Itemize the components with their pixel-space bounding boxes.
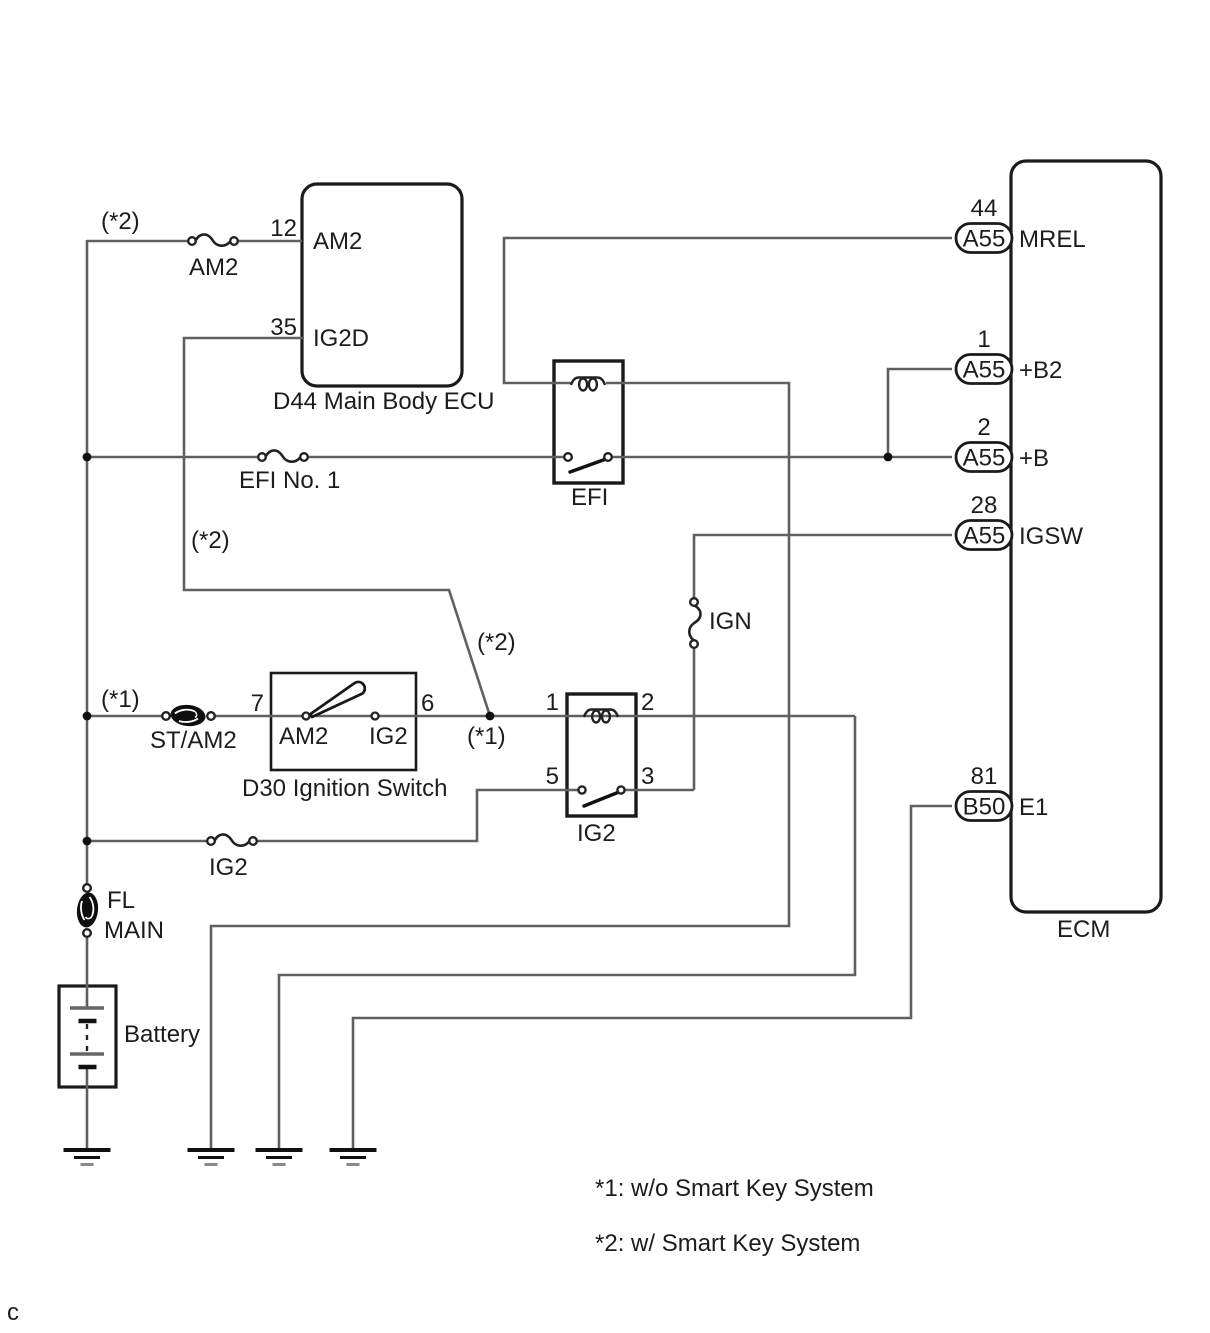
pin name IG2D in D44 <box>313 325 369 352</box>
EFI relay coil <box>571 378 605 391</box>
label +B2 <box>1019 357 1062 384</box>
svg-text:(*1): (*1) <box>467 723 506 750</box>
label IGN <box>709 608 752 635</box>
svg-text:A55: A55 <box>963 445 1006 472</box>
svg-text:FL: FL <box>107 887 135 914</box>
connector A55 pin2 +B <box>956 443 1012 472</box>
pin 81 <box>971 763 998 790</box>
svg-text:IGN: IGN <box>709 608 752 635</box>
svg-text:*2: w/ Smart Key System: *2: w/ Smart Key System <box>595 1230 860 1257</box>
D44 Main Body ECU box <box>302 184 462 386</box>
pin name AM2 in D44 <box>313 228 362 255</box>
pin 44 <box>971 195 998 222</box>
wire +B2 branch <box>888 369 952 457</box>
pin 2 IG2 relay <box>641 689 654 716</box>
svg-text:AM2: AM2 <box>279 723 328 750</box>
fuse IGN vertical <box>689 598 700 648</box>
junction node +B/+B2 <box>884 453 893 462</box>
svg-text:IGSW: IGSW <box>1019 523 1083 550</box>
svg-text:A55: A55 <box>963 523 1006 550</box>
svg-text:IG2D: IG2D <box>313 325 369 352</box>
svg-text:28: 28 <box>971 492 998 519</box>
fuse EFI No.1 <box>258 450 308 461</box>
fusible link ST/AM2 <box>162 703 215 728</box>
wire IG2D branch <box>184 338 490 716</box>
pin 7 <box>251 690 264 717</box>
svg-text:2: 2 <box>641 689 654 716</box>
svg-text:*1: w/o Smart Key System: *1: w/o Smart Key System <box>595 1175 874 1202</box>
IG2 relay coil <box>584 710 618 723</box>
label MAIN <box>104 917 164 944</box>
label (*1) left <box>101 686 140 713</box>
note 1 <box>595 1175 874 1202</box>
wire MREL to EFI coil <box>504 238 952 383</box>
pin 3 IG2 relay <box>641 763 654 790</box>
label FL <box>107 887 135 914</box>
pin 1 IG2 relay <box>546 689 559 716</box>
ground battery <box>64 1150 111 1165</box>
wire AM2 row top <box>87 240 302 243</box>
wire IG2 fuse row to relay pin5 <box>87 790 694 841</box>
pin 2 ECM <box>977 414 990 441</box>
svg-text:EFI: EFI <box>571 484 608 511</box>
connector A55 pin1 +B2 <box>956 355 1012 384</box>
label D44 Main Body ECU <box>273 388 494 415</box>
svg-text:D44 Main Body ECU: D44 Main Body ECU <box>273 388 494 415</box>
label fuse IG2 <box>209 854 248 881</box>
wire left vertical <box>86 240 89 884</box>
ECM box <box>1011 161 1161 912</box>
wire E1 to ground <box>353 806 952 1150</box>
label (*2) mid left <box>191 527 230 554</box>
IG2 relay contact <box>578 786 624 806</box>
fuse IG2 <box>207 834 257 845</box>
junction node main row left <box>83 712 92 721</box>
svg-text:B50: B50 <box>963 794 1006 821</box>
junction node IG2 row left <box>83 837 92 846</box>
battery plates <box>70 1008 104 1067</box>
svg-text:35: 35 <box>270 314 297 341</box>
svg-text:ECM: ECM <box>1057 916 1110 943</box>
svg-text:MREL: MREL <box>1019 226 1086 253</box>
svg-text:44: 44 <box>971 195 998 222</box>
label fuse AM2 <box>189 254 238 281</box>
svg-text:E1: E1 <box>1019 794 1048 821</box>
label Battery <box>124 1021 200 1048</box>
svg-text:3: 3 <box>641 763 654 790</box>
label E1 <box>1019 794 1048 821</box>
svg-text:EFI No. 1: EFI No. 1 <box>239 467 340 494</box>
svg-text:81: 81 <box>971 763 998 790</box>
contact name AM2 in D30 <box>279 723 328 750</box>
connector A55 pin28 IGSW <box>956 521 1012 550</box>
contact name IG2 in D30 <box>369 723 408 750</box>
svg-text:1: 1 <box>546 689 559 716</box>
svg-text:7: 7 <box>251 690 264 717</box>
label D30 Ignition Switch <box>242 775 447 802</box>
svg-text:AM2: AM2 <box>189 254 238 281</box>
EFI relay box <box>554 361 623 483</box>
pin 5 IG2 relay <box>546 763 559 790</box>
svg-text:ST/AM2: ST/AM2 <box>150 727 237 754</box>
wire battery top <box>86 937 89 1149</box>
pin 1 ECM <box>977 326 990 353</box>
svg-text:A55: A55 <box>963 226 1006 253</box>
label EFI relay <box>571 484 608 511</box>
pin 28 <box>971 492 998 519</box>
label IG2 relay <box>577 820 616 847</box>
svg-text:IG2: IG2 <box>577 820 616 847</box>
svg-text:AM2: AM2 <box>313 228 362 255</box>
svg-text:+B: +B <box>1019 445 1049 472</box>
fuse AM2 <box>188 234 238 245</box>
wire main ignition row <box>87 716 855 1150</box>
svg-text:2: 2 <box>977 414 990 441</box>
svg-text:D30 Ignition Switch: D30 Ignition Switch <box>242 775 447 802</box>
pin 35 <box>270 314 297 341</box>
note 2 <box>595 1230 860 1257</box>
svg-text:(*2): (*2) <box>101 208 140 235</box>
svg-text:(*2): (*2) <box>477 629 516 656</box>
ground 2 <box>188 1150 235 1165</box>
svg-text:1: 1 <box>977 326 990 353</box>
IG2 relay box <box>567 694 636 816</box>
ground 4 <box>330 1150 377 1165</box>
label (*2) top left <box>101 208 140 235</box>
junction node EFI No.1 left <box>83 453 92 462</box>
label (*2) diagonal <box>477 629 516 656</box>
label MREL <box>1019 226 1086 253</box>
svg-text:5: 5 <box>546 763 559 790</box>
pin 12 <box>270 215 297 242</box>
EFI relay contact <box>564 453 612 472</box>
svg-text:12: 12 <box>270 215 297 242</box>
svg-text:IG2: IG2 <box>209 854 248 881</box>
label IGSW <box>1019 523 1083 550</box>
svg-text:+B2: +B2 <box>1019 357 1062 384</box>
svg-text:A55: A55 <box>963 357 1006 384</box>
svg-text:Battery: Battery <box>124 1021 200 1048</box>
ground 3 <box>256 1150 303 1165</box>
svg-text:(*2): (*2) <box>191 527 230 554</box>
wire IGSW and IGN vertical <box>694 535 952 790</box>
connector A55 pin44 MREL <box>956 224 1012 253</box>
pin 6 <box>421 690 434 717</box>
connector B50 pin81 E1 <box>956 792 1012 821</box>
svg-text:6: 6 <box>421 690 434 717</box>
svg-text:(*1): (*1) <box>101 686 140 713</box>
junction node (*1)/(*2) merge <box>486 712 495 721</box>
D30 ignition switch box <box>271 673 416 770</box>
battery box <box>59 986 116 1087</box>
page mark c <box>7 1299 19 1326</box>
wire EFI No.1 row <box>87 456 952 459</box>
fusible link FL MAIN vertical <box>75 884 100 937</box>
label (*1) right <box>467 723 506 750</box>
D30 switch blade <box>303 682 379 720</box>
label ST/AM2 <box>150 727 237 754</box>
label EFI No. 1 <box>239 467 340 494</box>
svg-text:IG2: IG2 <box>369 723 408 750</box>
label +B <box>1019 445 1049 472</box>
wire EFI coil to ground <box>211 383 789 1150</box>
label ECM <box>1057 916 1110 943</box>
svg-text:MAIN: MAIN <box>104 917 164 944</box>
svg-text:c: c <box>7 1299 19 1326</box>
